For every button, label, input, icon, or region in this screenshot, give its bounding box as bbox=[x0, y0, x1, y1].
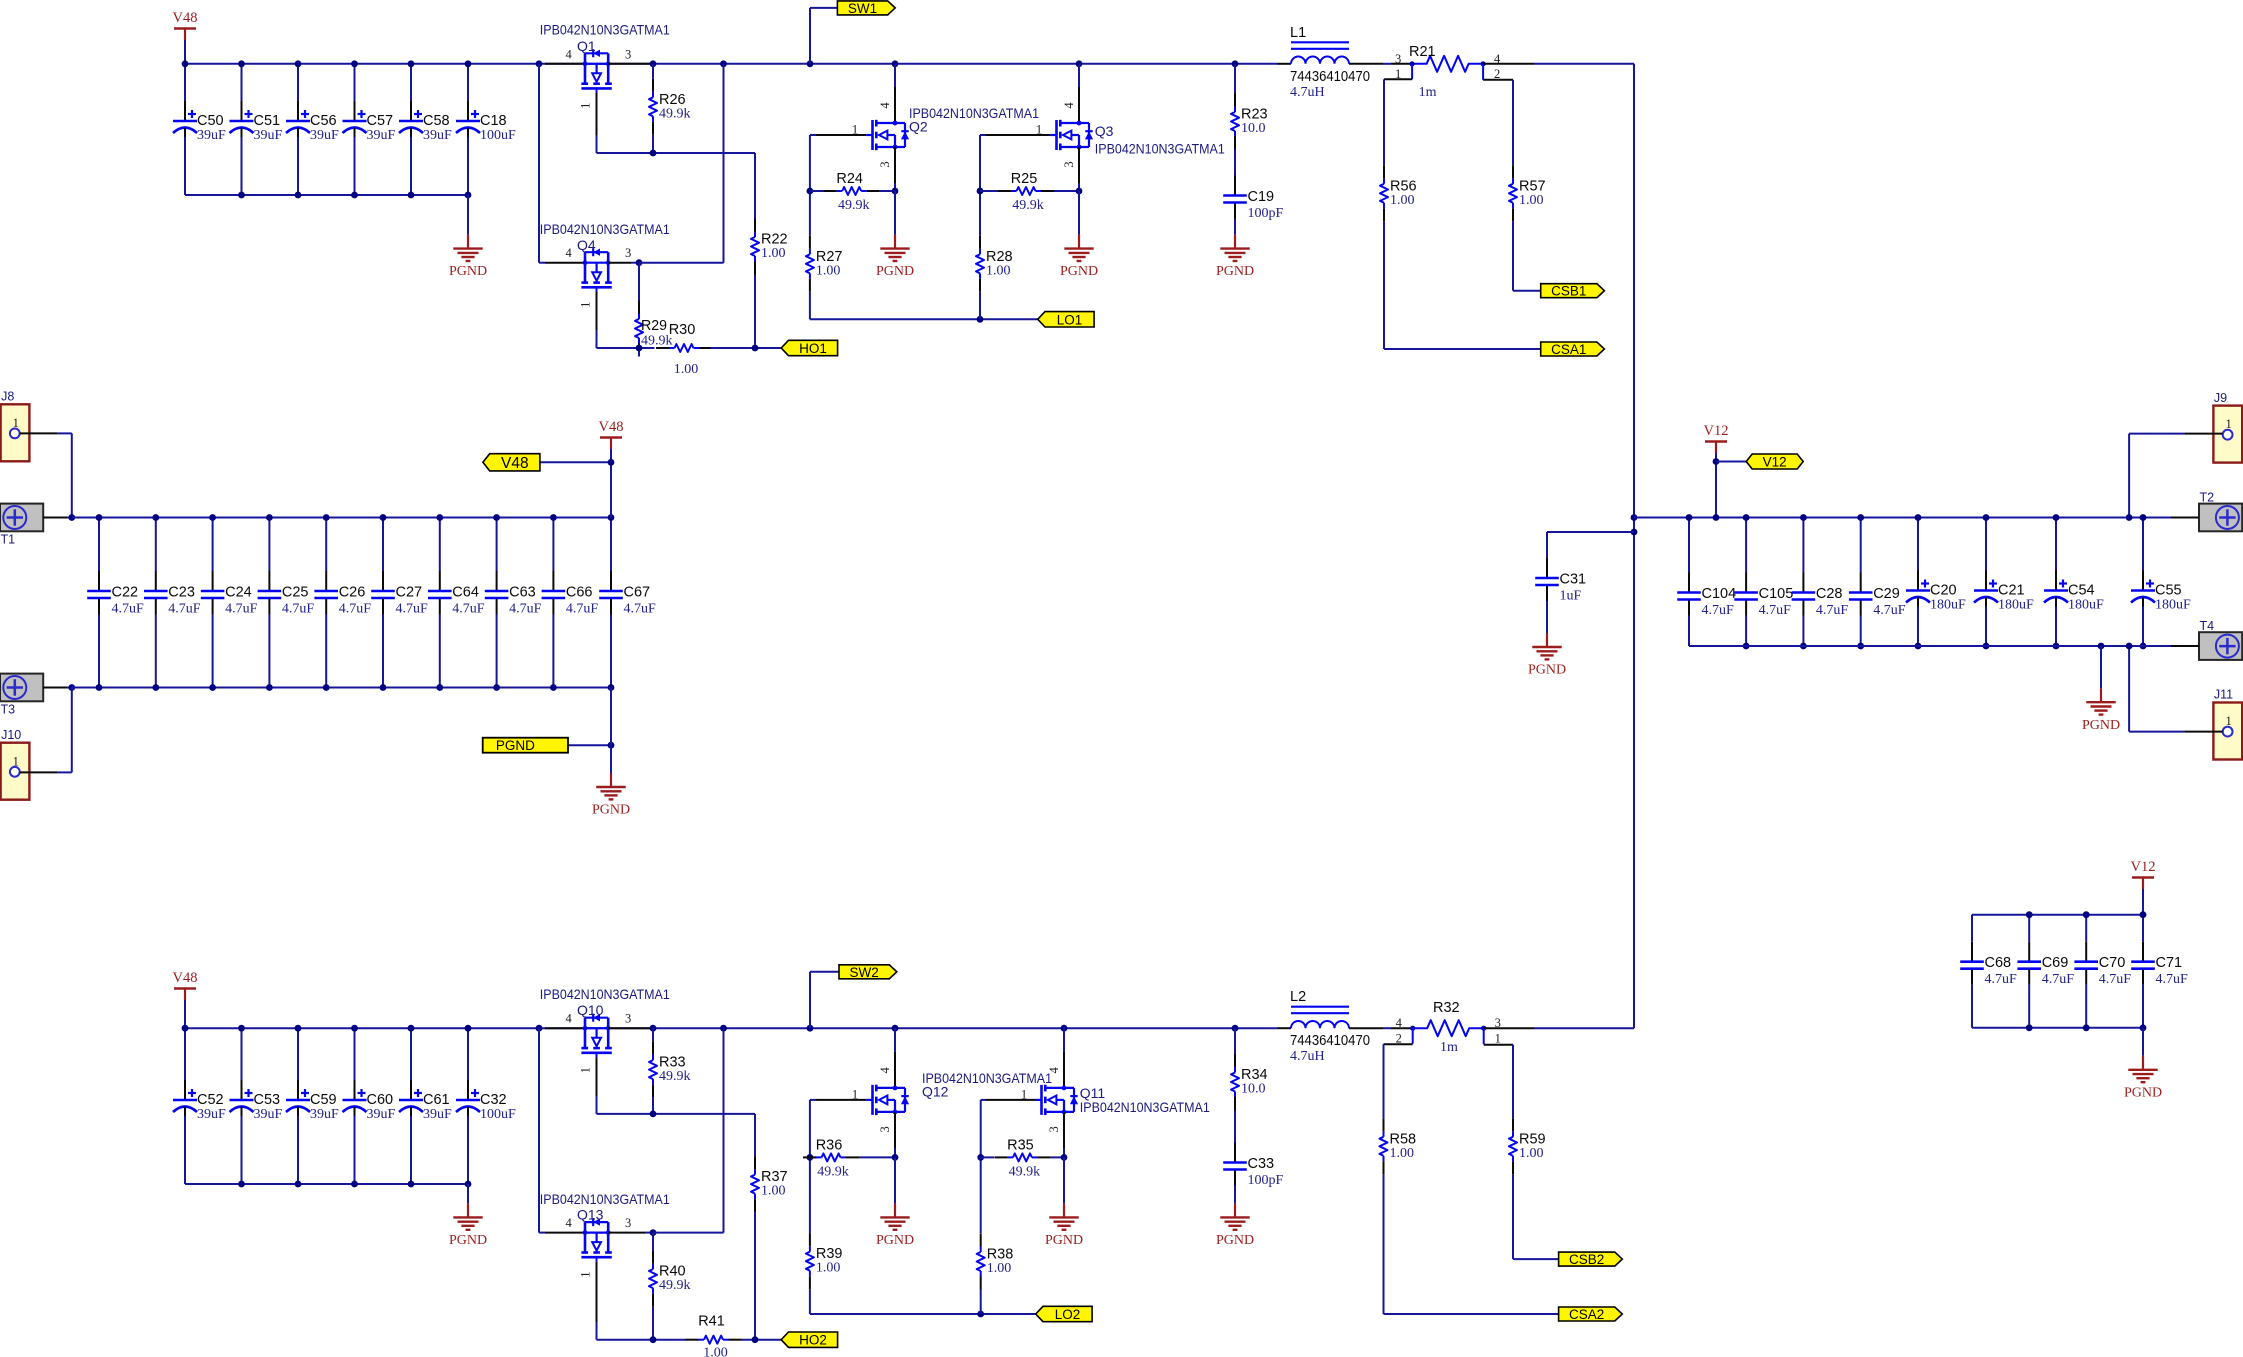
svg-text:J8: J8 bbox=[1, 390, 14, 404]
svg-text:1.00: 1.00 bbox=[986, 263, 1011, 278]
svg-text:4.7uF: 4.7uF bbox=[1816, 603, 1849, 618]
svg-text:L2: L2 bbox=[1290, 989, 1306, 1005]
svg-text:Q2: Q2 bbox=[909, 119, 928, 135]
svg-text:C58: C58 bbox=[423, 113, 450, 129]
svg-text:C55: C55 bbox=[2155, 583, 2182, 599]
svg-text:39uF: 39uF bbox=[423, 128, 452, 143]
svg-text:CSB2: CSB2 bbox=[1569, 1252, 1604, 1267]
svg-text:R36: R36 bbox=[816, 1137, 843, 1153]
svg-text:49.9k: 49.9k bbox=[1012, 198, 1044, 213]
svg-text:PGND: PGND bbox=[449, 1233, 487, 1248]
svg-text:J9: J9 bbox=[2214, 391, 2227, 405]
svg-text:100pF: 100pF bbox=[1248, 206, 1284, 221]
svg-text:49.9k: 49.9k bbox=[659, 106, 691, 121]
svg-text:C63: C63 bbox=[509, 585, 536, 601]
svg-text:4: 4 bbox=[1062, 102, 1076, 109]
svg-text:1.00: 1.00 bbox=[703, 1346, 728, 1357]
svg-text:C23: C23 bbox=[168, 585, 195, 601]
svg-text:PGND: PGND bbox=[496, 738, 535, 753]
svg-text:4.7uH: 4.7uH bbox=[1290, 85, 1325, 100]
svg-text:4: 4 bbox=[565, 246, 572, 260]
svg-text:4: 4 bbox=[565, 47, 572, 61]
svg-text:1: 1 bbox=[13, 416, 19, 430]
svg-text:4.7uF: 4.7uF bbox=[396, 602, 429, 617]
svg-text:C66: C66 bbox=[566, 585, 593, 601]
svg-text:IPB042N10N3GATMA1: IPB042N10N3GATMA1 bbox=[540, 986, 670, 1002]
svg-text:3: 3 bbox=[625, 246, 631, 260]
svg-text:39uF: 39uF bbox=[254, 128, 283, 143]
svg-text:39uF: 39uF bbox=[423, 1107, 452, 1122]
svg-text:4.7uF: 4.7uF bbox=[1759, 603, 1792, 618]
svg-text:4.7uF: 4.7uF bbox=[566, 602, 599, 617]
svg-text:Q3: Q3 bbox=[1095, 123, 1114, 139]
svg-text:LO2: LO2 bbox=[1055, 1307, 1081, 1322]
svg-text:J10: J10 bbox=[1, 728, 21, 742]
svg-text:3: 3 bbox=[1062, 161, 1076, 167]
svg-text:Q13: Q13 bbox=[577, 1207, 604, 1223]
svg-text:C53: C53 bbox=[254, 1092, 281, 1108]
svg-text:C71: C71 bbox=[2156, 955, 2183, 971]
svg-text:3: 3 bbox=[625, 47, 631, 61]
svg-text:PGND: PGND bbox=[1528, 663, 1566, 678]
svg-text:39uF: 39uF bbox=[310, 128, 339, 143]
svg-text:3: 3 bbox=[625, 1216, 631, 1230]
svg-text:1: 1 bbox=[2225, 417, 2231, 431]
svg-text:49.9k: 49.9k bbox=[817, 1164, 849, 1179]
svg-text:Q1: Q1 bbox=[577, 38, 596, 54]
svg-text:4: 4 bbox=[878, 102, 892, 109]
svg-text:C54: C54 bbox=[2068, 583, 2095, 599]
svg-text:100uF: 100uF bbox=[480, 1107, 516, 1122]
svg-text:PGND: PGND bbox=[592, 803, 630, 818]
svg-text:C20: C20 bbox=[1930, 583, 1957, 599]
svg-text:C104: C104 bbox=[1702, 586, 1737, 602]
svg-text:V48: V48 bbox=[599, 419, 624, 435]
svg-text:3: 3 bbox=[1395, 52, 1401, 66]
svg-text:180uF: 180uF bbox=[1930, 598, 1966, 613]
svg-text:4.7uF: 4.7uF bbox=[339, 602, 372, 617]
svg-text:IPB042N10N3GATMA1: IPB042N10N3GATMA1 bbox=[540, 221, 670, 237]
svg-text:4.7uF: 4.7uF bbox=[624, 602, 657, 617]
svg-text:4.7uF: 4.7uF bbox=[282, 602, 315, 617]
svg-text:T1: T1 bbox=[1, 533, 16, 547]
svg-text:1: 1 bbox=[579, 103, 593, 109]
svg-text:10.0: 10.0 bbox=[1241, 121, 1266, 136]
svg-text:C25: C25 bbox=[282, 585, 309, 601]
svg-text:R29: R29 bbox=[641, 318, 667, 334]
svg-text:SW1: SW1 bbox=[848, 1, 877, 16]
svg-text:PGND: PGND bbox=[1216, 264, 1254, 279]
svg-text:IPB042N10N3GATMA1: IPB042N10N3GATMA1 bbox=[540, 1191, 670, 1207]
svg-text:R32: R32 bbox=[1433, 1000, 1460, 1016]
svg-text:1.00: 1.00 bbox=[761, 1184, 786, 1199]
svg-text:T3: T3 bbox=[1, 703, 16, 717]
svg-text:PGND: PGND bbox=[876, 264, 914, 279]
svg-text:4.7uF: 4.7uF bbox=[1985, 972, 2018, 987]
svg-text:IPB042N10N3GATMA1: IPB042N10N3GATMA1 bbox=[1080, 1099, 1210, 1115]
svg-text:39uF: 39uF bbox=[367, 128, 396, 143]
svg-text:C51: C51 bbox=[254, 113, 281, 129]
svg-text:CSA2: CSA2 bbox=[1569, 1307, 1604, 1322]
svg-text:SW2: SW2 bbox=[849, 965, 878, 980]
svg-text:1.00: 1.00 bbox=[761, 246, 786, 261]
svg-text:4.7uF: 4.7uF bbox=[1702, 603, 1735, 618]
svg-text:1: 1 bbox=[579, 1067, 593, 1073]
svg-text:V12: V12 bbox=[1704, 423, 1729, 439]
svg-text:PGND: PGND bbox=[1045, 1233, 1083, 1248]
svg-text:3: 3 bbox=[625, 1012, 631, 1026]
svg-text:1.00: 1.00 bbox=[816, 263, 841, 278]
svg-text:LO1: LO1 bbox=[1057, 312, 1083, 327]
svg-text:C32: C32 bbox=[480, 1092, 507, 1108]
svg-text:C19: C19 bbox=[1248, 189, 1275, 205]
svg-text:V48: V48 bbox=[173, 970, 198, 986]
svg-text:Q4: Q4 bbox=[577, 237, 596, 253]
svg-text:T2: T2 bbox=[2200, 491, 2215, 505]
svg-text:180uF: 180uF bbox=[1998, 598, 2034, 613]
svg-text:4: 4 bbox=[565, 1216, 572, 1230]
svg-text:1m: 1m bbox=[1419, 85, 1437, 100]
svg-text:1uF: 1uF bbox=[1560, 589, 1582, 604]
svg-text:R35: R35 bbox=[1007, 1137, 1034, 1153]
svg-text:C57: C57 bbox=[367, 113, 394, 129]
svg-text:C22: C22 bbox=[112, 585, 139, 601]
svg-text:4: 4 bbox=[878, 1067, 892, 1074]
svg-text:1m: 1m bbox=[1440, 1040, 1458, 1055]
svg-text:HO1: HO1 bbox=[799, 341, 827, 356]
svg-text:1: 1 bbox=[579, 1271, 593, 1277]
svg-text:1.00: 1.00 bbox=[987, 1261, 1012, 1276]
svg-text:180uF: 180uF bbox=[2068, 598, 2104, 613]
svg-text:1.00: 1.00 bbox=[1390, 1146, 1415, 1161]
svg-text:C18: C18 bbox=[480, 113, 507, 129]
svg-text:49.9k: 49.9k bbox=[838, 198, 870, 213]
svg-text:C70: C70 bbox=[2099, 955, 2126, 971]
svg-text:3: 3 bbox=[1047, 1126, 1061, 1132]
svg-text:39uF: 39uF bbox=[254, 1107, 283, 1122]
svg-text:PGND: PGND bbox=[2082, 718, 2120, 733]
svg-text:10.0: 10.0 bbox=[1241, 1082, 1266, 1097]
svg-text:4.7uH: 4.7uH bbox=[1290, 1049, 1325, 1064]
svg-text:C31: C31 bbox=[1560, 572, 1587, 588]
svg-text:100uF: 100uF bbox=[480, 128, 516, 143]
svg-text:C68: C68 bbox=[1985, 955, 2012, 971]
svg-text:4.7uF: 4.7uF bbox=[112, 602, 145, 617]
svg-text:4.7uF: 4.7uF bbox=[225, 602, 258, 617]
svg-text:T4: T4 bbox=[2200, 619, 2215, 633]
svg-text:1: 1 bbox=[2225, 714, 2231, 728]
svg-text:C67: C67 bbox=[624, 585, 651, 601]
svg-text:V48: V48 bbox=[501, 455, 529, 472]
svg-text:74436410470: 74436410470 bbox=[1290, 69, 1370, 85]
svg-text:C52: C52 bbox=[197, 1092, 224, 1108]
svg-text:C24: C24 bbox=[225, 585, 252, 601]
svg-text:PGND: PGND bbox=[2124, 1085, 2162, 1100]
svg-text:C21: C21 bbox=[1998, 583, 2025, 599]
svg-text:4: 4 bbox=[1047, 1067, 1061, 1074]
svg-text:R30: R30 bbox=[669, 322, 696, 338]
svg-text:L1: L1 bbox=[1290, 25, 1306, 41]
svg-text:180uF: 180uF bbox=[2155, 598, 2191, 613]
svg-text:R21: R21 bbox=[1409, 44, 1436, 60]
svg-text:C33: C33 bbox=[1248, 1156, 1275, 1172]
svg-text:1.00: 1.00 bbox=[1390, 193, 1415, 208]
svg-text:4.7uF: 4.7uF bbox=[452, 602, 485, 617]
svg-text:1: 1 bbox=[13, 754, 19, 768]
svg-text:Q10: Q10 bbox=[577, 1002, 604, 1018]
svg-text:4.7uF: 4.7uF bbox=[2099, 972, 2132, 987]
svg-text:39uF: 39uF bbox=[310, 1107, 339, 1122]
svg-text:C64: C64 bbox=[452, 585, 479, 601]
svg-text:CSB1: CSB1 bbox=[1551, 284, 1586, 299]
svg-text:R25: R25 bbox=[1011, 171, 1038, 187]
svg-text:V12: V12 bbox=[1763, 455, 1787, 470]
svg-text:PGND: PGND bbox=[1216, 1233, 1254, 1248]
svg-text:3: 3 bbox=[878, 161, 892, 167]
svg-text:4.7uF: 4.7uF bbox=[2042, 972, 2075, 987]
svg-text:4: 4 bbox=[565, 1012, 572, 1026]
svg-text:C105: C105 bbox=[1759, 586, 1794, 602]
svg-text:1.00: 1.00 bbox=[1519, 193, 1544, 208]
svg-text:100pF: 100pF bbox=[1248, 1173, 1284, 1188]
svg-text:C69: C69 bbox=[2042, 955, 2069, 971]
svg-text:1.00: 1.00 bbox=[816, 1261, 841, 1276]
svg-text:V48: V48 bbox=[173, 10, 198, 26]
svg-text:C59: C59 bbox=[310, 1092, 337, 1108]
svg-text:Q12: Q12 bbox=[922, 1083, 949, 1099]
svg-text:1.00: 1.00 bbox=[1519, 1146, 1544, 1161]
svg-text:49.9k: 49.9k bbox=[659, 1069, 691, 1084]
svg-text:HO2: HO2 bbox=[799, 1333, 827, 1348]
svg-text:PGND: PGND bbox=[876, 1233, 914, 1248]
svg-text:C26: C26 bbox=[339, 585, 366, 601]
svg-text:C27: C27 bbox=[396, 585, 423, 601]
svg-text:IPB042N10N3GATMA1: IPB042N10N3GATMA1 bbox=[540, 22, 670, 38]
svg-text:1: 1 bbox=[1495, 1032, 1501, 1046]
svg-text:IPB042N10N3GATMA1: IPB042N10N3GATMA1 bbox=[1095, 141, 1225, 157]
svg-text:4.7uF: 4.7uF bbox=[509, 602, 541, 617]
svg-text:39uF: 39uF bbox=[197, 1107, 226, 1122]
svg-text:1.00: 1.00 bbox=[674, 362, 699, 377]
svg-text:C28: C28 bbox=[1816, 586, 1843, 602]
svg-text:V12: V12 bbox=[2131, 859, 2156, 875]
svg-text:39uF: 39uF bbox=[367, 1107, 396, 1122]
svg-text:J11: J11 bbox=[2214, 688, 2233, 702]
svg-text:3: 3 bbox=[878, 1126, 892, 1132]
svg-text:39uF: 39uF bbox=[197, 128, 226, 143]
svg-text:R24: R24 bbox=[836, 171, 863, 187]
svg-text:49.9k: 49.9k bbox=[659, 1278, 691, 1293]
svg-text:C60: C60 bbox=[367, 1092, 394, 1108]
svg-text:PGND: PGND bbox=[449, 264, 487, 279]
svg-text:4.7uF: 4.7uF bbox=[1873, 603, 1906, 618]
svg-text:4.7uF: 4.7uF bbox=[2156, 972, 2189, 987]
svg-text:C56: C56 bbox=[310, 113, 337, 129]
svg-text:C61: C61 bbox=[423, 1092, 450, 1108]
svg-text:C29: C29 bbox=[1873, 586, 1900, 602]
svg-text:R41: R41 bbox=[698, 1314, 725, 1330]
svg-text:PGND: PGND bbox=[1060, 264, 1098, 279]
svg-text:74436410470: 74436410470 bbox=[1290, 1033, 1370, 1049]
svg-text:CSA1: CSA1 bbox=[1551, 342, 1586, 357]
svg-text:4.7uF: 4.7uF bbox=[168, 602, 201, 617]
svg-text:49.9k: 49.9k bbox=[1009, 1164, 1041, 1179]
svg-text:4: 4 bbox=[1396, 1016, 1403, 1030]
svg-text:1: 1 bbox=[579, 302, 593, 308]
svg-text:IPB042N10N3GATMA1: IPB042N10N3GATMA1 bbox=[909, 105, 1039, 121]
svg-text:C50: C50 bbox=[197, 113, 224, 129]
